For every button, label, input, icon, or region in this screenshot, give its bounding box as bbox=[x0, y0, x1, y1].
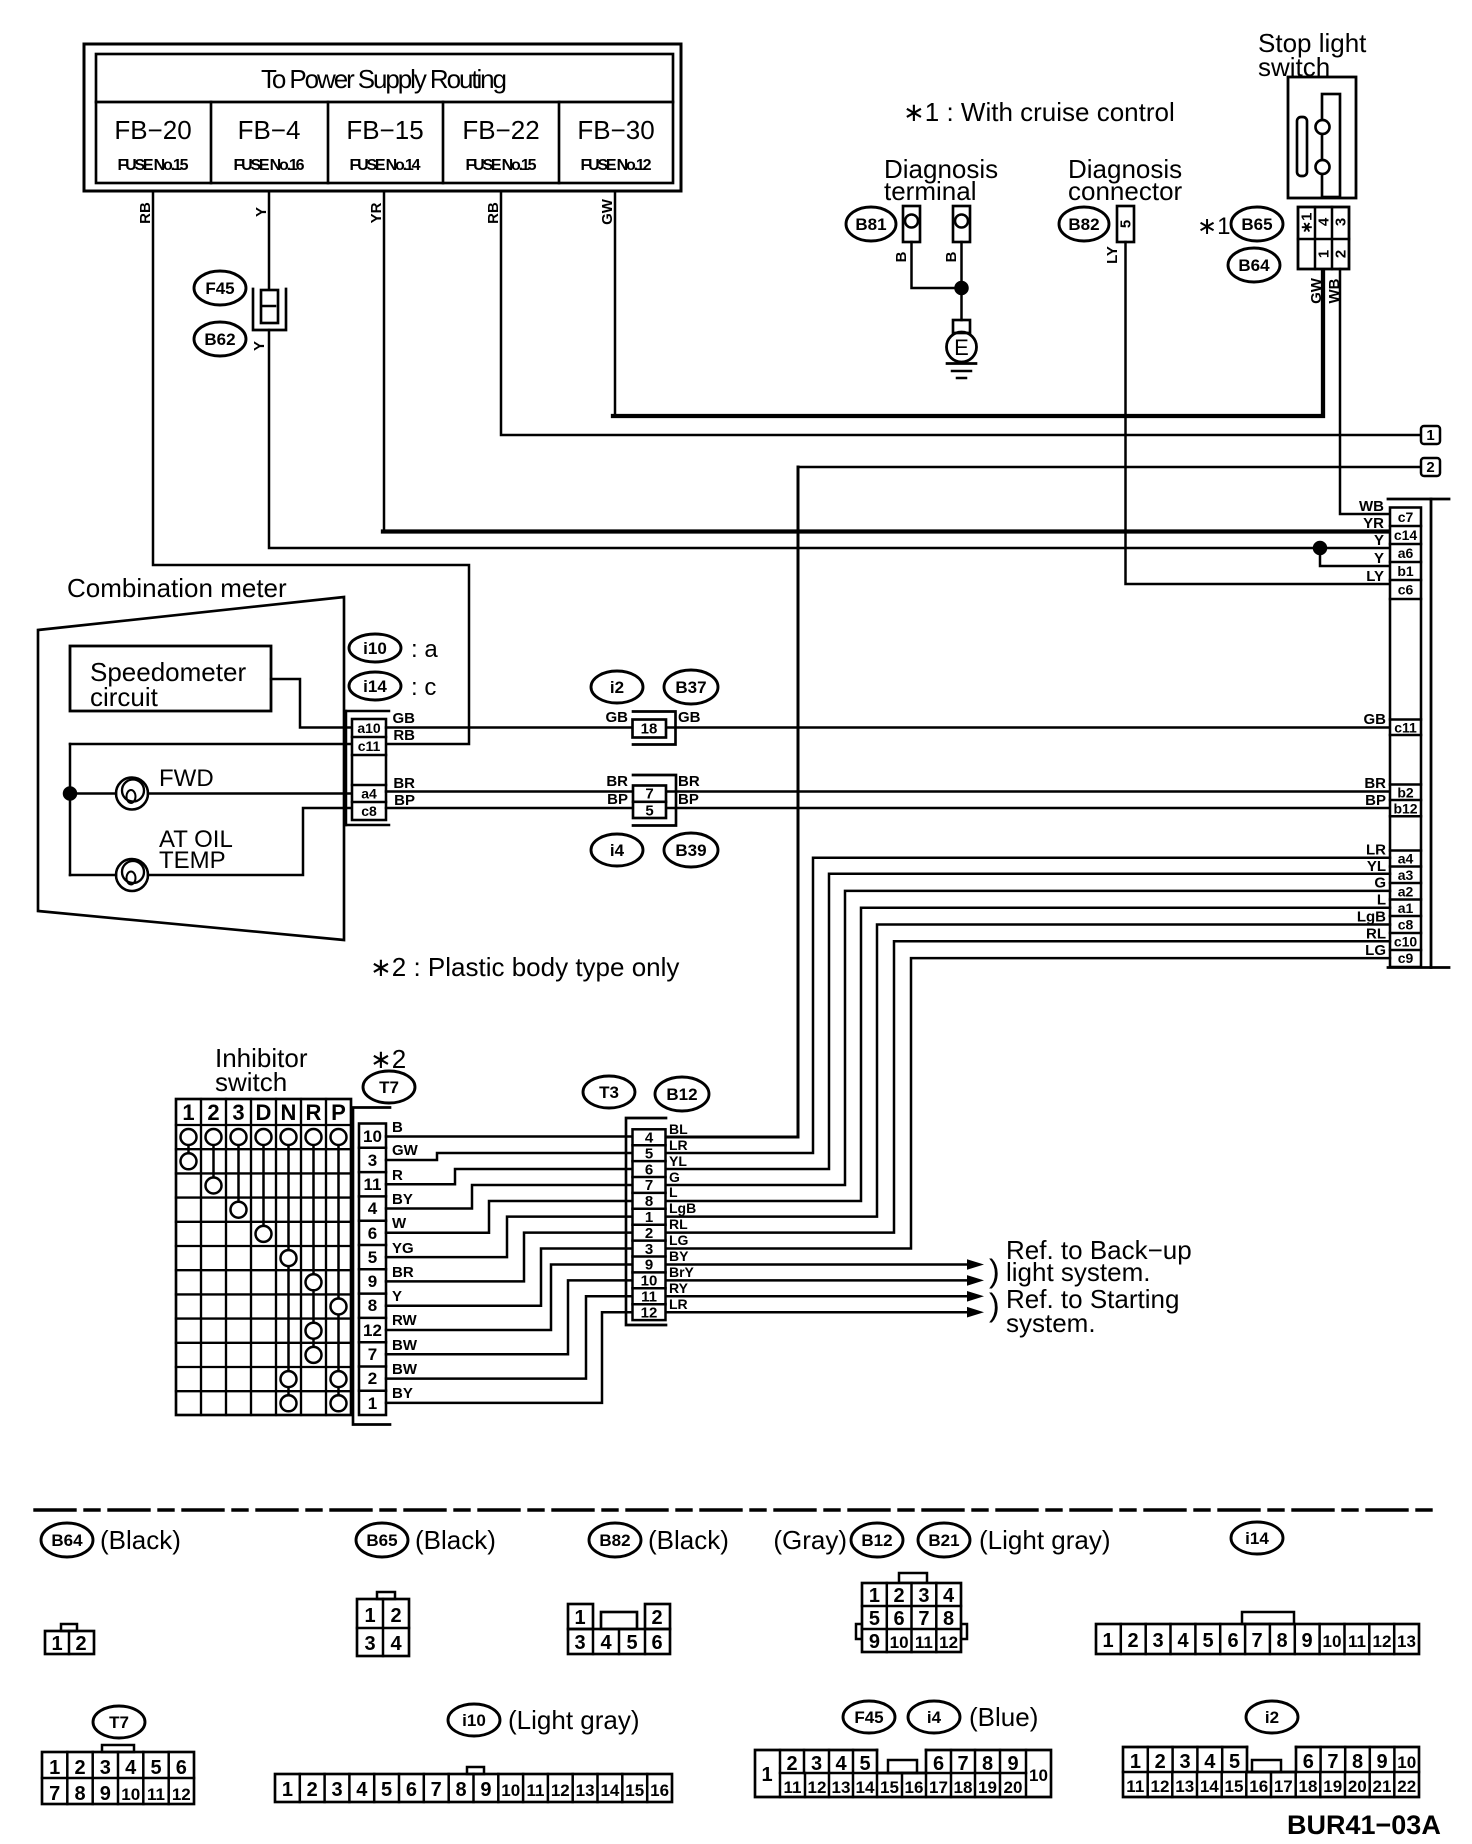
svg-text:WB: WB bbox=[1359, 498, 1384, 515]
svg-text:20: 20 bbox=[1004, 1778, 1023, 1797]
svg-text:16: 16 bbox=[650, 1781, 669, 1800]
svg-text:FB−22: FB−22 bbox=[462, 115, 539, 145]
svg-text:BP: BP bbox=[394, 792, 415, 809]
svg-text:16: 16 bbox=[905, 1778, 924, 1797]
svg-text:13: 13 bbox=[1175, 1777, 1194, 1796]
svg-text:9: 9 bbox=[368, 1272, 377, 1291]
connector oval B21 legend bbox=[918, 1523, 1111, 1557]
connector oval B37 bbox=[664, 670, 718, 704]
svg-text:2: 2 bbox=[368, 1369, 377, 1388]
wire B T7-10 to T3-4 bbox=[386, 1135, 632, 1138]
wire BP from c8 to b12 bbox=[386, 807, 1390, 810]
fuse FB-15 bbox=[346, 115, 423, 174]
meter connector bracket bbox=[346, 711, 389, 825]
svg-text:∗2 : Plastic body type only: ∗2 : Plastic body type only bbox=[370, 952, 679, 982]
node B junction bbox=[956, 282, 968, 294]
ref to back-up light note bbox=[989, 1235, 1192, 1289]
svg-text:1: 1 bbox=[182, 1100, 194, 1125]
svg-text:Y: Y bbox=[253, 207, 270, 217]
ground E bbox=[947, 320, 977, 378]
wire LY to c6 bbox=[1126, 242, 1391, 584]
connector oval B64 bbox=[1228, 248, 1280, 282]
svg-text:Y: Y bbox=[392, 1288, 402, 1305]
wire L T3-8 to a1 bbox=[666, 908, 1390, 1201]
svg-text:(Black): (Black) bbox=[415, 1525, 496, 1555]
svg-text:BP: BP bbox=[607, 791, 628, 808]
wire BW T7-2 to T3-11 bbox=[386, 1296, 632, 1378]
svg-text:20: 20 bbox=[1348, 1777, 1367, 1796]
contact column lines bbox=[189, 1137, 339, 1403]
svg-text:R: R bbox=[306, 1100, 322, 1125]
svg-text:N: N bbox=[281, 1100, 297, 1125]
svg-text:light system.: light system. bbox=[1006, 1257, 1151, 1287]
wire R T7-11 to T3-6 bbox=[386, 1169, 632, 1184]
contact circles bbox=[181, 1129, 347, 1411]
svg-text:i4: i4 bbox=[927, 1708, 942, 1727]
svg-text:8: 8 bbox=[1352, 1751, 1363, 1773]
svg-text:BR: BR bbox=[392, 1264, 414, 1281]
svg-text:B: B bbox=[392, 1119, 403, 1136]
svg-text:i2: i2 bbox=[610, 678, 624, 697]
svg-text:B37: B37 bbox=[675, 678, 706, 697]
svg-text:∗1: ∗1 bbox=[1299, 213, 1316, 234]
joint connector 18 bbox=[633, 712, 676, 745]
svg-text:B82: B82 bbox=[1068, 215, 1099, 234]
wire Y from FB-4 to fuse bbox=[268, 191, 271, 290]
svg-text:BY: BY bbox=[392, 1191, 413, 1208]
svg-text:19: 19 bbox=[978, 1778, 997, 1797]
svg-text:2: 2 bbox=[651, 1607, 662, 1629]
svg-text:18: 18 bbox=[641, 721, 658, 738]
svg-text:14: 14 bbox=[600, 1781, 619, 1800]
connector oval B82 legend bbox=[589, 1523, 729, 1557]
svg-text:LG: LG bbox=[669, 1232, 689, 1248]
main harness connector pin column bbox=[1390, 508, 1421, 968]
svg-text:12: 12 bbox=[363, 1321, 382, 1340]
connector B64 pinout bbox=[45, 1624, 94, 1655]
svg-text:LgB: LgB bbox=[1357, 909, 1386, 926]
wire YG T7-5 to T3-1 bbox=[386, 1217, 632, 1258]
main harness connector right bracket bbox=[1388, 499, 1449, 968]
wire LR T3-12 to starting system bbox=[666, 1311, 969, 1314]
svg-text:i10: i10 bbox=[462, 1711, 486, 1730]
wire RL T3-2 to c10 bbox=[666, 941, 1390, 1232]
svg-text:(Gray): (Gray) bbox=[773, 1525, 847, 1555]
svg-text:BY: BY bbox=[669, 1248, 689, 1264]
svg-text:10: 10 bbox=[1323, 1632, 1342, 1651]
svg-text:a1: a1 bbox=[1398, 900, 1414, 916]
arrow BrY bbox=[967, 1275, 984, 1286]
svg-text:13: 13 bbox=[576, 1781, 595, 1800]
svg-text:8: 8 bbox=[74, 1783, 85, 1805]
wire BrY T3-10 to back-up light bbox=[666, 1279, 969, 1282]
svg-text:D: D bbox=[256, 1100, 272, 1125]
svg-text:GW: GW bbox=[1308, 277, 1325, 304]
svg-text:21: 21 bbox=[1373, 1777, 1392, 1796]
connector oval T7 bbox=[363, 1071, 415, 1103]
wire B from terminal 1 bbox=[912, 242, 962, 288]
svg-text:GW: GW bbox=[599, 198, 616, 225]
svg-text:3: 3 bbox=[364, 1633, 375, 1655]
svg-text:2: 2 bbox=[75, 1633, 86, 1655]
svg-text:a6: a6 bbox=[1398, 545, 1414, 561]
svg-text:B82: B82 bbox=[599, 1531, 630, 1550]
svg-text:10: 10 bbox=[890, 1633, 909, 1652]
wire to c11 bbox=[70, 743, 352, 746]
svg-text:switch: switch bbox=[215, 1067, 287, 1097]
svg-text:B64: B64 bbox=[1238, 256, 1270, 275]
svg-text:8: 8 bbox=[368, 1296, 377, 1315]
svg-text:system.: system. bbox=[1006, 1308, 1096, 1338]
wire RY T3-11 to starting system bbox=[666, 1295, 969, 1298]
svg-text:E: E bbox=[954, 335, 969, 360]
svg-text:1: 1 bbox=[645, 1209, 653, 1226]
node Y junction bbox=[1314, 542, 1326, 554]
terminal box 2 bbox=[1421, 458, 1440, 476]
svg-text:5: 5 bbox=[859, 1753, 870, 1775]
connector oval i4 bbox=[591, 834, 643, 866]
arrow RY bbox=[967, 1291, 984, 1302]
svg-text:7: 7 bbox=[368, 1345, 377, 1364]
connector oval B12 bbox=[655, 1077, 709, 1111]
svg-text:RB: RB bbox=[485, 202, 502, 224]
svg-text:11: 11 bbox=[784, 1778, 802, 1797]
svg-text:15: 15 bbox=[880, 1778, 899, 1797]
svg-text:8: 8 bbox=[1276, 1630, 1287, 1652]
connector oval B65 bbox=[1231, 207, 1283, 241]
connector oval i4 legend bbox=[908, 1701, 1038, 1733]
wire to AT OIL gauge bbox=[70, 874, 116, 877]
svg-text:13: 13 bbox=[832, 1778, 851, 1797]
svg-text:FB−15: FB−15 bbox=[346, 115, 423, 145]
svg-text:5: 5 bbox=[1229, 1751, 1240, 1773]
svg-text:c8: c8 bbox=[1398, 917, 1414, 933]
svg-text:B: B bbox=[893, 251, 910, 262]
svg-text:4: 4 bbox=[645, 1130, 654, 1147]
svg-text:RB: RB bbox=[137, 202, 154, 224]
svg-text:2: 2 bbox=[786, 1753, 797, 1775]
svg-text:T3: T3 bbox=[599, 1083, 619, 1102]
diagnosis connector label bbox=[1068, 154, 1183, 206]
svg-text:11: 11 bbox=[1126, 1777, 1144, 1796]
svg-text:(Black): (Black) bbox=[100, 1525, 181, 1555]
svg-text:B81: B81 bbox=[855, 215, 886, 234]
T3 connector pin column bbox=[633, 1129, 666, 1320]
svg-text:c6: c6 bbox=[1398, 582, 1414, 598]
svg-text:12: 12 bbox=[939, 1633, 958, 1652]
svg-text:4: 4 bbox=[356, 1779, 368, 1801]
svg-text:LR: LR bbox=[669, 1296, 688, 1312]
svg-text:2: 2 bbox=[1426, 459, 1434, 476]
svg-text:YL: YL bbox=[669, 1153, 687, 1169]
svg-text:3: 3 bbox=[232, 1100, 244, 1125]
svg-text:10: 10 bbox=[501, 1781, 520, 1800]
svg-text:1: 1 bbox=[869, 1585, 880, 1607]
svg-text:22: 22 bbox=[1397, 1777, 1416, 1796]
svg-text:Y: Y bbox=[251, 341, 268, 351]
wire RB from FB-20 to c11 bbox=[153, 191, 469, 744]
svg-text:2: 2 bbox=[645, 1225, 653, 1242]
svg-text:4: 4 bbox=[943, 1585, 955, 1607]
AT OIL TEMP gauge bbox=[116, 859, 148, 891]
svg-text:5: 5 bbox=[381, 1779, 392, 1801]
svg-text:FUSE No.15: FUSE No.15 bbox=[118, 157, 189, 174]
speedometer circuit box bbox=[70, 646, 271, 712]
svg-text:7: 7 bbox=[49, 1783, 60, 1805]
svg-text:8: 8 bbox=[645, 1193, 653, 1210]
svg-text:c14: c14 bbox=[1394, 527, 1418, 543]
svg-text:connector: connector bbox=[1068, 176, 1183, 206]
svg-text:terminal: terminal bbox=[884, 176, 976, 206]
svg-text:BUR41−03A: BUR41−03A bbox=[1287, 1810, 1441, 1840]
svg-text:3: 3 bbox=[331, 1779, 342, 1801]
arrow LR bbox=[967, 1307, 984, 1318]
wire BW T7-7 to T3-10 bbox=[386, 1280, 632, 1354]
svg-text:RL: RL bbox=[1366, 926, 1386, 943]
svg-text:6: 6 bbox=[1303, 1751, 1314, 1773]
svg-text:∗2: ∗2 bbox=[370, 1044, 406, 1074]
connector F45/i4 pinout bbox=[755, 1750, 1051, 1797]
svg-text:RW: RW bbox=[392, 1312, 418, 1329]
svg-text:: c: : c bbox=[411, 674, 436, 701]
svg-text:1: 1 bbox=[1316, 250, 1333, 258]
inhibitor switch grid bbox=[176, 1099, 351, 1415]
svg-text:BR: BR bbox=[606, 773, 628, 790]
connector B82 pinout bbox=[568, 1604, 670, 1654]
wire BY T7-1 to T3-12 bbox=[386, 1312, 632, 1403]
svg-text:6: 6 bbox=[1227, 1630, 1238, 1652]
wire BR T7-9 to T3-2 bbox=[386, 1233, 632, 1282]
meter connector pins bbox=[352, 719, 386, 820]
wire RB from FB-22 to terminal 1 bbox=[501, 191, 1420, 435]
connector oval B82 bbox=[1059, 207, 1109, 241]
svg-text:9: 9 bbox=[869, 1631, 880, 1653]
svg-text:GW: GW bbox=[392, 1142, 419, 1159]
stop light switch body bbox=[1288, 77, 1356, 198]
svg-text:FUSE No.12: FUSE No.12 bbox=[581, 157, 652, 174]
svg-text:10: 10 bbox=[363, 1127, 382, 1146]
wire YR vertical from FB-15 bbox=[383, 191, 386, 530]
svg-text:11: 11 bbox=[641, 1289, 657, 1306]
wire YL T3-6 to a3 bbox=[666, 874, 1390, 1169]
svg-text:L: L bbox=[669, 1184, 678, 1200]
wire B from terminal 2 to ground bbox=[960, 242, 963, 320]
svg-text:11: 11 bbox=[527, 1781, 545, 1800]
svg-text:BR: BR bbox=[1364, 775, 1386, 792]
svg-text:3: 3 bbox=[574, 1632, 585, 1654]
svg-text:BR: BR bbox=[678, 773, 700, 790]
diagnosis terminal pin 2 bbox=[953, 206, 970, 242]
connector B12 pinout bbox=[856, 1573, 967, 1653]
svg-text:4: 4 bbox=[368, 1199, 378, 1218]
svg-text:8: 8 bbox=[456, 1779, 467, 1801]
svg-text:B12: B12 bbox=[666, 1085, 697, 1104]
svg-text:14: 14 bbox=[1200, 1777, 1219, 1796]
inhibitor switch label bbox=[215, 1043, 308, 1097]
svg-text:b2: b2 bbox=[1397, 785, 1414, 801]
svg-text:5: 5 bbox=[1118, 220, 1135, 228]
svg-text:6: 6 bbox=[651, 1632, 662, 1654]
fuse FB-20 bbox=[114, 115, 191, 174]
T7 connector bracket bbox=[353, 1108, 390, 1425]
svg-text:YG: YG bbox=[392, 1240, 414, 1257]
wire BY T3-9 to back-up light bbox=[666, 1263, 969, 1266]
svg-text:a10: a10 bbox=[357, 720, 381, 736]
svg-text:1: 1 bbox=[51, 1633, 62, 1655]
connector oval F45 bbox=[194, 271, 246, 305]
svg-text:15: 15 bbox=[625, 1781, 644, 1800]
connector oval B81 bbox=[846, 207, 896, 241]
svg-text:B39: B39 bbox=[675, 841, 706, 860]
wire Y branch to b1 bbox=[1320, 548, 1390, 566]
svg-text:c8: c8 bbox=[361, 803, 377, 819]
svg-text:7: 7 bbox=[645, 786, 653, 803]
svg-text:5: 5 bbox=[869, 1608, 880, 1630]
svg-text:1: 1 bbox=[1102, 1630, 1113, 1652]
svg-text:6: 6 bbox=[406, 1779, 417, 1801]
svg-text:RY: RY bbox=[669, 1280, 689, 1296]
label AT OIL TEMP bbox=[159, 826, 233, 874]
connector oval i2 bbox=[591, 671, 643, 703]
wire LgB T3-1 to c8 bbox=[666, 925, 1390, 1217]
svg-text:BL: BL bbox=[669, 1121, 688, 1137]
connector oval i14 legend bbox=[1231, 1522, 1283, 1554]
connector oval B39 bbox=[664, 833, 718, 867]
svg-text:FUSE No.14: FUSE No.14 bbox=[350, 157, 421, 174]
connector oval B64 legend bbox=[41, 1523, 181, 1557]
wire Y T7-8 to T3-3 bbox=[386, 1249, 632, 1306]
svg-text:5: 5 bbox=[368, 1248, 377, 1267]
svg-text:2: 2 bbox=[307, 1779, 318, 1801]
wire W T7-6 to T3-8 bbox=[386, 1201, 632, 1233]
svg-text:3: 3 bbox=[368, 1151, 377, 1170]
ref to starting note bbox=[989, 1284, 1179, 1338]
svg-text:i2: i2 bbox=[1265, 1708, 1279, 1727]
wire AT OIL to c8 bbox=[148, 808, 352, 875]
svg-text:9: 9 bbox=[1007, 1753, 1018, 1775]
svg-text:13: 13 bbox=[1397, 1632, 1416, 1651]
svg-text:BY: BY bbox=[392, 1385, 413, 1402]
svg-text:B12: B12 bbox=[861, 1531, 892, 1550]
svg-text:BW: BW bbox=[392, 1361, 418, 1378]
svg-text:4: 4 bbox=[600, 1632, 612, 1654]
svg-text:LR: LR bbox=[1366, 842, 1386, 859]
svg-text:10: 10 bbox=[1397, 1753, 1416, 1772]
connector B65 pinout bbox=[357, 1592, 409, 1656]
svg-text:T7: T7 bbox=[379, 1078, 399, 1097]
svg-text:i10: i10 bbox=[363, 639, 387, 658]
svg-text:18: 18 bbox=[1299, 1777, 1318, 1796]
svg-text:BrY: BrY bbox=[669, 1264, 695, 1280]
svg-text:B21: B21 bbox=[928, 1531, 959, 1550]
svg-text:11: 11 bbox=[364, 1175, 382, 1194]
svg-text:12: 12 bbox=[808, 1778, 827, 1797]
fuse F45 symbol bbox=[253, 289, 286, 330]
wire G T3-7 to a2 bbox=[666, 891, 1390, 1185]
svg-text:c11: c11 bbox=[1394, 720, 1417, 736]
svg-text:2: 2 bbox=[1333, 250, 1350, 258]
svg-text:Y: Y bbox=[1374, 550, 1384, 567]
svg-text:P: P bbox=[331, 1100, 346, 1125]
wire BL T3-4 to terminal 2 bbox=[666, 467, 798, 1137]
svg-text:FWD: FWD bbox=[159, 765, 214, 792]
wire BR from a4 to b2 bbox=[386, 790, 1390, 793]
svg-text:L: L bbox=[1377, 892, 1386, 909]
wire GW thick to stop light switch bbox=[613, 269, 1323, 416]
svg-text:B: B bbox=[943, 251, 960, 262]
svg-text:3: 3 bbox=[100, 1757, 111, 1779]
wire WB from switch to c7 bbox=[1340, 269, 1390, 514]
svg-text:RB: RB bbox=[393, 727, 415, 744]
svg-text:3: 3 bbox=[1179, 1751, 1190, 1773]
svg-text:∗1: ∗1 bbox=[1197, 213, 1230, 240]
svg-text:a4: a4 bbox=[1398, 851, 1414, 867]
wire RW T7-12 to T3-9 bbox=[386, 1265, 632, 1331]
svg-text:RL: RL bbox=[669, 1216, 688, 1232]
connector T7 pinout bbox=[42, 1745, 194, 1805]
connector i2 pinout bbox=[1123, 1747, 1419, 1797]
wire Y from fuse to a6 bbox=[269, 330, 1390, 548]
svg-text:4: 4 bbox=[1316, 217, 1333, 226]
wire GW from FB-30 bbox=[614, 191, 617, 414]
svg-text:LgB: LgB bbox=[669, 1200, 696, 1216]
svg-text:4: 4 bbox=[1204, 1751, 1216, 1773]
svg-text:R: R bbox=[392, 1167, 403, 1184]
gear position headers bbox=[182, 1100, 345, 1125]
svg-text:BP: BP bbox=[1365, 792, 1386, 809]
connector i14 pinout bbox=[1096, 1612, 1419, 1654]
wire speedometer to a10 bbox=[271, 679, 352, 728]
svg-text:9: 9 bbox=[1301, 1630, 1312, 1652]
svg-text:15: 15 bbox=[1225, 1777, 1244, 1796]
svg-text:B64: B64 bbox=[51, 1531, 83, 1550]
svg-text:5: 5 bbox=[645, 1145, 653, 1162]
svg-text:1: 1 bbox=[761, 1764, 772, 1786]
wire to terminal box 2 bbox=[798, 466, 1420, 469]
svg-text:YR: YR bbox=[1363, 515, 1384, 532]
svg-text:(Blue): (Blue) bbox=[969, 1702, 1038, 1732]
svg-text:3: 3 bbox=[811, 1753, 822, 1775]
svg-text:1: 1 bbox=[282, 1779, 293, 1801]
connector oval i2 legend bbox=[1246, 1701, 1298, 1733]
svg-text:10: 10 bbox=[121, 1785, 140, 1804]
wire GB from a10 to c11 far right bbox=[386, 726, 1390, 729]
svg-text:LY: LY bbox=[1366, 568, 1384, 585]
svg-text:(Light gray): (Light gray) bbox=[508, 1705, 640, 1735]
svg-text:7: 7 bbox=[1327, 1751, 1338, 1773]
svg-text:12: 12 bbox=[172, 1785, 191, 1804]
svg-text:3: 3 bbox=[645, 1241, 653, 1258]
FWD gauge bbox=[116, 778, 148, 810]
svg-text:FB−4: FB−4 bbox=[238, 115, 301, 145]
svg-text:BW: BW bbox=[392, 1337, 418, 1354]
svg-text:T7: T7 bbox=[109, 1713, 129, 1732]
svg-text:c9: c9 bbox=[1398, 950, 1414, 966]
svg-text:W: W bbox=[392, 1215, 407, 1232]
wire LG T3-3 to c9 bbox=[666, 958, 1390, 1248]
svg-text:(Black): (Black) bbox=[648, 1525, 729, 1555]
svg-text:9: 9 bbox=[1377, 1751, 1388, 1773]
T3 connector bracket bbox=[626, 1118, 666, 1325]
svg-text:∗1 : With cruise control: ∗1 : With cruise control bbox=[903, 97, 1175, 127]
svg-text:3: 3 bbox=[1152, 1630, 1163, 1652]
connector grid B65/B64 on switch bbox=[1298, 207, 1350, 269]
svg-text:FB−20: FB−20 bbox=[114, 115, 191, 145]
connector oval B62 bbox=[194, 322, 246, 356]
arrow BY bbox=[967, 1259, 984, 1270]
svg-text:1: 1 bbox=[368, 1394, 377, 1413]
svg-text:c11: c11 bbox=[358, 738, 381, 754]
